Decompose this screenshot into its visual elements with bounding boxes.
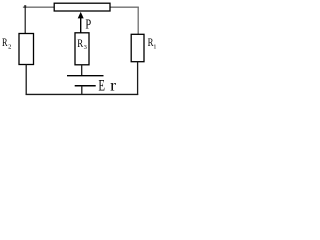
wire right-bottom vertical (R1 bottom to bottom wire) <box>137 62 139 95</box>
svg-text:3: 3 <box>84 44 87 51</box>
svg-text:1: 1 <box>153 44 156 51</box>
wire battery bottom stub <box>81 86 83 95</box>
wire left-bottom vertical (R2 bottom to bottom wire) <box>25 65 27 96</box>
svg-text:2: 2 <box>8 44 11 51</box>
svg-text:P: P <box>85 17 91 32</box>
potentiometer wiper arrow <box>78 12 84 33</box>
node junction tick above wire at left corner <box>24 5 26 7</box>
resistor R1 (right box) <box>131 34 144 61</box>
wire middle stub (R3 bottom to battery) <box>81 65 83 76</box>
label E r <box>98 77 117 94</box>
battery positive plate (long) <box>67 75 104 77</box>
battery negative plate (short) <box>75 85 96 87</box>
label R2 <box>2 37 11 51</box>
wire left vertical (junction down to R2 top) <box>24 7 26 34</box>
resistor R3 (middle box) <box>75 33 89 65</box>
label R3 <box>77 38 87 51</box>
resistor R2 (left box) <box>19 34 34 65</box>
wire bottom horizontal <box>26 93 139 95</box>
wire top-right horizontal (potentiometer right terminal to right branch) <box>110 6 139 8</box>
svg-text:R: R <box>2 37 8 49</box>
label P <box>85 17 91 32</box>
svg-text:E: E <box>98 78 105 95</box>
svg-text:r: r <box>110 77 117 94</box>
svg-text:R: R <box>77 38 83 50</box>
label R1 <box>148 35 157 50</box>
wire right vertical (down to R1) <box>137 7 139 35</box>
wire top-left horizontal (left branch to potentiometer left terminal) <box>23 6 55 8</box>
potentiometer P body <box>54 3 110 11</box>
